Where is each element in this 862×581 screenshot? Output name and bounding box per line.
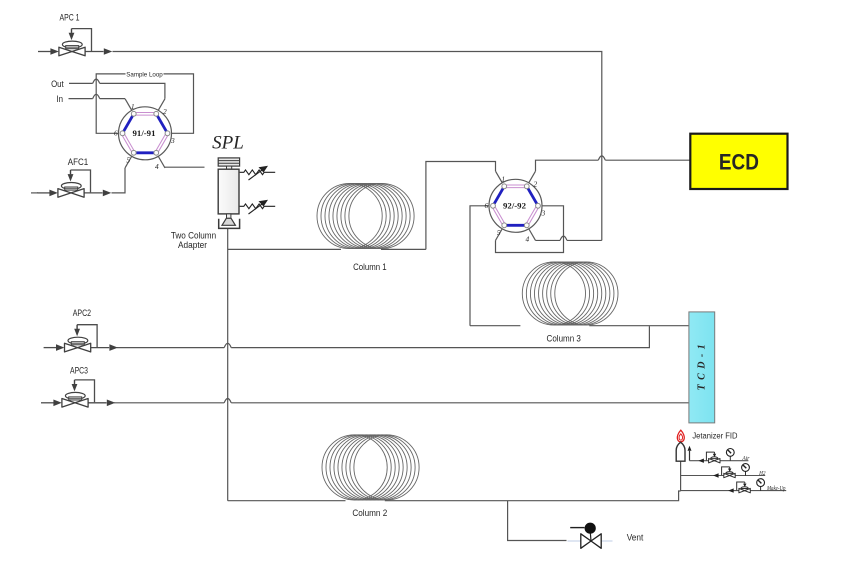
SPL injector (171, 133, 275, 251)
svg-text:Air: Air (742, 455, 750, 462)
wire vent branch (508, 501, 567, 541)
restrictor lower (240, 202, 276, 215)
jump on port4 wire (560, 236, 567, 240)
wire valve91 In line (with jump) (69, 98, 126, 100)
Air regulator (706, 452, 720, 463)
wire APC3 to TCD (with jump) (114, 402, 689, 404)
svg-text:Adapter: Adapter (178, 240, 207, 250)
Make-Up left arrow (728, 488, 734, 492)
svg-text:Column 2: Column 2 (352, 508, 387, 518)
valve APC3 (41, 380, 115, 407)
svg-text:H2: H2 (758, 470, 766, 477)
svg-text:In: In (56, 94, 63, 104)
H2 gauge (742, 464, 750, 476)
svg-text:APC 1: APC 1 (60, 13, 80, 23)
wire H2 line (681, 475, 766, 477)
wire Column1 bottom (228, 248, 426, 250)
FID flame inner (679, 434, 682, 440)
svg-text:Column 3: Column 3 (547, 334, 581, 344)
jump on ECD wire (598, 156, 605, 160)
wire valve91 port5 to AFC1 (112, 168, 126, 193)
rotary valve 91/-91 (114, 99, 175, 171)
air up-arrow (689, 451, 691, 461)
wire valve92 port2 to ECD (with jump) (536, 160, 691, 171)
valve AFC1 (37, 170, 111, 197)
Air left arrow (698, 459, 704, 463)
wire sample loop (96, 74, 193, 133)
Make-Up gauge (757, 479, 765, 491)
Vent valve (568, 523, 644, 549)
svg-text:ECD: ECD (719, 150, 759, 175)
valve APC2 (44, 325, 118, 352)
wire valve91 Out line (with jump) (69, 83, 165, 98)
wire Air line (690, 460, 749, 462)
MAIN WIRES (69, 52, 691, 541)
svg-text:Jetanizer FID: Jetanizer FID (692, 431, 737, 441)
coil Column 2 (322, 435, 419, 500)
adapter funnel (222, 218, 235, 225)
svg-text:Vent: Vent (627, 533, 644, 543)
injector neck (227, 166, 232, 169)
svg-text:92/-92: 92/-92 (503, 201, 527, 211)
svg-text:SPL: SPL (212, 133, 244, 154)
wire APC1 out to valve92 port4 (long right vertical) (113, 52, 602, 241)
wire two-column-adapter vertical (227, 229, 229, 501)
wire AFC1 inlet extension (31, 192, 38, 194)
wire Column2 bottom to FID (228, 491, 681, 501)
vent faint pipe (568, 540, 613, 542)
svg-text:Out: Out (51, 79, 64, 89)
Sample Loop label (126, 70, 164, 78)
adapter bracket (219, 219, 240, 229)
svg-text:Two Column: Two Column (171, 231, 216, 241)
jump on Out wire (93, 79, 100, 83)
jump on APC2 wire (224, 343, 231, 347)
rotary valve 92/-92 (484, 171, 545, 243)
svg-text:Sample Loop: Sample Loop (126, 71, 163, 78)
TCD detector box (689, 312, 715, 423)
H2 regulator (722, 467, 736, 478)
svg-text:APC2: APC2 (73, 308, 91, 318)
ECD detector box (690, 134, 787, 189)
svg-text:Column 1: Column 1 (353, 262, 387, 272)
jump on In wire (93, 94, 100, 98)
wire valve92 port4 to long vertical (with jump) (536, 239, 602, 241)
wire valve92 port3-port5 loop (496, 206, 564, 253)
Make-Up regulator (737, 482, 751, 493)
Air gauge (726, 449, 734, 461)
svg-text:APC3: APC3 (70, 366, 88, 376)
FID vessel (676, 442, 685, 461)
jump on APC3 wire (224, 399, 231, 403)
H2 left arrow (713, 473, 719, 477)
wire FID vertical (680, 461, 682, 491)
vent solenoid circle (585, 523, 596, 534)
injector bottom neck (227, 214, 231, 218)
FID assembly (676, 430, 786, 493)
wire APC2 to Column3/TCD junction (with jump) (117, 326, 650, 348)
coil Column 3 (522, 262, 618, 325)
FID flame outer (677, 430, 684, 442)
wire valve91 port4 to SPL (165, 166, 205, 168)
wire Column3 to TCD (470, 325, 689, 327)
wire Make-Up line (681, 490, 787, 492)
restrictor upper (240, 168, 276, 181)
svg-text:91/-91: 91/-91 (133, 128, 156, 138)
wire valve92 port6 to Column3 (470, 206, 489, 326)
injector cap (218, 158, 239, 166)
coil Column 1 (317, 183, 414, 248)
svg-text:Make-Up: Make-Up (766, 485, 786, 492)
injector body (218, 169, 239, 214)
vent bowtie (581, 534, 591, 549)
svg-text:AFC1: AFC1 (68, 157, 88, 167)
valve APC1 (38, 29, 112, 56)
wire valve92 port1 to Column1 (426, 162, 496, 250)
